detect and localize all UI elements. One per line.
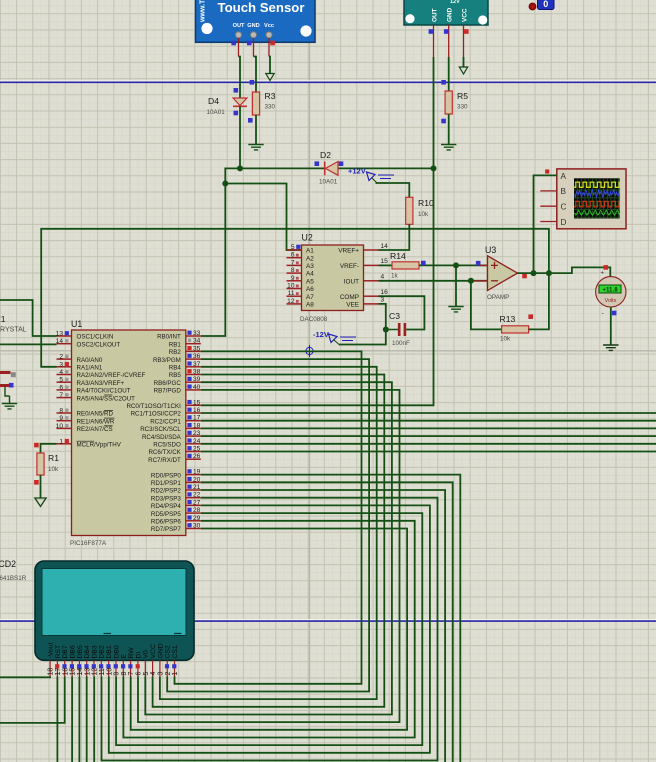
svg-text:10k: 10k — [48, 466, 59, 473]
wire RC1 pin16 to right edge — [201, 412, 656, 414]
svg-text:27: 27 — [193, 499, 201, 506]
svg-text:RD2/PSP2: RD2/PSP2 — [151, 488, 181, 495]
svg-text:2: 2 — [59, 354, 63, 361]
svg-text:RC4/SDI/SDA: RC4/SDI/SDA — [142, 434, 182, 441]
svg-text:DB4: DB4 — [84, 645, 91, 658]
svg-text:13: 13 — [84, 668, 91, 676]
wire voltmeter to ground — [610, 307, 612, 345]
svg-text:DB2: DB2 — [99, 645, 106, 658]
svg-text:RB6/PGC: RB6/PGC — [154, 380, 182, 387]
U1 pin 23 RC4/SDI/SDA — [142, 430, 201, 441]
U1 pin 36 RB3/PGM — [153, 353, 201, 364]
U1 pin 17 RC2/CCP1 — [150, 415, 201, 426]
svg-text:5: 5 — [291, 244, 295, 251]
svg-text:DB0: DB0 — [113, 645, 120, 658]
wire MCLR to R1 — [41, 444, 57, 453]
wire inverting node to R13 — [471, 281, 502, 330]
ground arrow below TS2 VCC — [459, 67, 467, 74]
svg-text:RE1/AN6/WR: RE1/AN6/WR — [77, 418, 115, 425]
wire DAC VREF- to R14 — [379, 264, 393, 266]
svg-text:A8: A8 — [306, 302, 314, 309]
svg-text:3: 3 — [381, 297, 385, 304]
svg-text:18: 18 — [48, 668, 55, 676]
svg-text:10k: 10k — [500, 336, 511, 343]
svg-text:VREF+: VREF+ — [338, 248, 359, 255]
U2 pin 14 VREF+ — [338, 243, 388, 255]
LCD pin 14 DB5 — [77, 645, 84, 676]
svg-text:1: 1 — [172, 672, 179, 676]
U1 pin 19 RD0/PSP0 — [151, 469, 201, 480]
svg-text:330: 330 — [265, 104, 276, 111]
junction node at sensor2 column — [431, 165, 437, 171]
svg-text:10A01: 10A01 — [207, 109, 226, 116]
U1 pin 4 — [57, 369, 146, 379]
resistor R14 — [392, 262, 419, 269]
svg-text:RB3/PGM: RB3/PGM — [153, 357, 181, 364]
wire RD0 pin19 toward LCD DB5 — [201, 475, 461, 762]
wire RB4 pin37 to LCD GND — [160, 367, 377, 699]
U1 pin 34 RB1 — [169, 338, 201, 349]
U2 pin 7 A3 — [287, 259, 315, 270]
diode D4 — [233, 98, 247, 106]
U2 pin 6 A2 — [287, 252, 315, 263]
svg-text:24: 24 — [193, 438, 201, 445]
svg-text:GND: GND — [447, 7, 454, 22]
wire RC5 pin24 to right edge — [201, 443, 656, 445]
svg-text:RA4/T0CKI/C1OUT: RA4/T0CKI/C1OUT — [77, 388, 131, 395]
wire RD3 pin22 to LCD DB2 — [102, 498, 438, 761]
svg-text:29: 29 — [193, 515, 201, 522]
U2 pin 4 IOUT — [344, 274, 385, 286]
LCD pin 18 -Vout — [48, 643, 55, 677]
wire RB5 pin38 to LCD VCC — [153, 375, 385, 707]
TS2 pin markers — [429, 29, 469, 34]
scope channel labels — [561, 172, 567, 227]
wire LCD pin16 DB7 to left edge — [0, 677, 65, 723]
wire +12V to R10 — [376, 183, 410, 197]
svg-text:A2: A2 — [306, 255, 314, 262]
U2 pin 12 A8 — [287, 298, 315, 309]
power terminal +12V — [348, 167, 394, 184]
svg-text:RC7/RX/DT: RC7/RX/DT — [148, 457, 181, 464]
svg-text:11: 11 — [288, 290, 295, 297]
svg-text:14: 14 — [77, 668, 84, 676]
markers near R1 — [34, 443, 39, 485]
diode D2 — [325, 162, 338, 176]
U2 pin 5 A1 — [287, 244, 315, 255]
svg-text:39: 39 — [193, 376, 201, 383]
svg-text:9: 9 — [114, 672, 121, 676]
U1 pin 1 — [57, 438, 122, 448]
U2 pin 15 VREF- — [340, 258, 388, 270]
ground below R3 — [248, 145, 263, 150]
svg-text:R14: R14 — [390, 251, 406, 261]
svg-text:3: 3 — [158, 672, 165, 676]
svg-text:GND: GND — [157, 643, 164, 658]
wire crystal bottom to OSC2 — [0, 343, 57, 345]
svg-text:A7: A7 — [306, 294, 314, 301]
wire RC3 pin18 to right edge — [201, 427, 656, 429]
TS1 Vcc pin stub — [268, 38, 270, 57]
U2 pin 16 COMP — [340, 289, 388, 301]
svg-text:23: 23 — [193, 430, 201, 437]
resistor R3 — [252, 92, 259, 115]
svg-text:A6: A6 — [306, 286, 314, 293]
markers near C1 — [9, 372, 16, 387]
wire R14 to opamp noninverting input — [419, 264, 488, 266]
svg-text:DI: DI — [135, 652, 142, 659]
svg-text:RD3/PSP3: RD3/PSP3 — [151, 495, 181, 502]
svg-text:RW: RW — [128, 647, 135, 659]
marker at scope A — [545, 169, 549, 173]
scope trace D green sine wave — [575, 210, 620, 215]
TS1 OUT pin stub — [238, 38, 240, 57]
svg-text:VREF-: VREF- — [340, 263, 359, 270]
svg-text:RC6/TX/CK: RC6/TX/CK — [148, 449, 181, 456]
svg-text:8: 8 — [121, 672, 128, 676]
svg-text:6: 6 — [291, 252, 295, 259]
wire branch to DAC A1 — [225, 184, 301, 251]
LCD pin 2 CS2 — [165, 645, 172, 676]
svg-text:RB7/PGD: RB7/PGD — [154, 388, 182, 395]
TS2 VCC pin stub — [463, 25, 465, 57]
U1 pin 21 RD2/PSP2 — [151, 484, 201, 495]
svg-text:X1: X1 — [0, 314, 6, 324]
wire RC2 pin17 to right edge — [201, 420, 656, 422]
wire node to RB0 branch — [225, 168, 240, 183]
svg-text:0: 0 — [543, 0, 548, 9]
ground arrow below TS1 Vcc — [266, 74, 274, 81]
svg-text:DAC0808: DAC0808 — [300, 316, 328, 323]
svg-text:RB2: RB2 — [169, 349, 182, 356]
U1 pin 20 RD1/PSP1 — [151, 476, 201, 487]
svg-text:35: 35 — [193, 345, 201, 352]
svg-text:E: E — [121, 654, 128, 659]
svg-text:A4: A4 — [306, 271, 314, 278]
svg-text:2: 2 — [165, 672, 172, 676]
svg-text:7: 7 — [128, 672, 135, 676]
svg-text:RB4: RB4 — [169, 365, 182, 372]
svg-text:8: 8 — [291, 267, 295, 274]
wire R1 to ground arrow — [40, 475, 42, 498]
U1 pin 29 RD6/PSP6 — [151, 515, 201, 526]
svg-text:D: D — [561, 218, 567, 227]
wire LCD pin15 DB6 down — [71, 677, 73, 762]
svg-text:Vcc: Vcc — [264, 23, 274, 29]
wire RB6 pin39 to LCD V0 — [145, 382, 392, 714]
svg-text:DB3: DB3 — [91, 645, 98, 658]
svg-text:DB7: DB7 — [62, 645, 69, 658]
svg-text:16: 16 — [193, 407, 201, 414]
svg-text:R3: R3 — [265, 91, 276, 101]
svg-text:U2: U2 — [302, 233, 313, 243]
svg-text:10: 10 — [106, 668, 113, 676]
wire branch down to U1 RB0 pin 33 — [201, 184, 226, 337]
U1 pin 37 RB4 — [169, 361, 201, 372]
svg-text:26: 26 — [193, 453, 201, 460]
ic U2 DAC0808 body — [302, 245, 364, 311]
svg-text:OSC1/CLKIN: OSC1/CLKIN — [77, 334, 114, 341]
svg-text:C: C — [561, 203, 567, 212]
svg-text:21: 21 — [193, 484, 201, 491]
wire DAC IOUT to opamp inverting input — [379, 280, 488, 282]
sheet gray vertical line — [309, 0, 311, 762]
svg-text:RE2/AN7/CS: RE2/AN7/CS — [77, 426, 113, 433]
svg-text:28: 28 — [193, 507, 201, 514]
LCD pin 17 RST — [55, 645, 62, 677]
svg-text:6: 6 — [59, 384, 63, 391]
U1 pin 7 — [57, 392, 136, 402]
svg-text:A3: A3 — [306, 263, 314, 270]
svg-text:19: 19 — [193, 469, 201, 476]
svg-text:330: 330 — [457, 104, 468, 111]
svg-text:VCC: VCC — [462, 8, 469, 22]
svg-text:38: 38 — [193, 369, 201, 376]
wire main node horizontal — [240, 167, 434, 169]
wire DAC COMP to C3 right — [379, 296, 425, 329]
LCD pin 3 GND — [157, 643, 164, 676]
U1 pin 18 RC3/SCK/SCL — [140, 422, 201, 433]
junction node at D4 — [237, 165, 243, 171]
resistor R13 — [502, 326, 529, 333]
ground arrow below R1 — [35, 498, 46, 507]
U1 pin 30 RD7/PSP7 — [151, 523, 201, 534]
svg-text:RD7/PSP7: RD7/PSP7 — [151, 526, 181, 533]
wire RD7 pin30 to LCD RW — [131, 529, 407, 730]
origin marker — [304, 345, 316, 357]
U2 pin 11 A7 — [287, 290, 315, 301]
marker at opamp output — [522, 274, 527, 279]
markers near R3 — [248, 80, 254, 123]
wire RC4 pin23 to right edge — [201, 435, 656, 437]
capacitor C1 at left edge — [0, 371, 11, 404]
wire RB2 pin35 to LCD CS1 — [175, 351, 362, 683]
scope trace B blue noise wave — [575, 189, 620, 197]
wire LCD pin12 DB3 down — [93, 677, 95, 762]
markers near D4 — [234, 88, 239, 115]
wire TS1 GND to resistor R3 — [254, 57, 257, 93]
wire TS2 GND to R5 — [448, 57, 450, 91]
wire opamp output line — [518, 267, 611, 277]
svg-text:Volts: Volts — [605, 298, 617, 304]
svg-text:9: 9 — [291, 275, 295, 282]
wire scope channel A to output node — [534, 175, 557, 273]
svg-text:MCLR/Vpp/THV: MCLR/Vpp/THV — [77, 442, 122, 449]
U1 pin 33 RB0/INT — [157, 330, 201, 341]
svg-text:VEE: VEE — [346, 302, 359, 309]
svg-text:12: 12 — [92, 668, 99, 676]
lcd screen cursor marks — [104, 633, 182, 635]
marker voltmeter plus — [604, 265, 609, 270]
svg-text:OUT: OUT — [432, 8, 439, 22]
svg-text:RA3/AN3/VREF+: RA3/AN3/VREF+ — [77, 380, 125, 387]
svg-text:Touch Sensor: Touch Sensor — [218, 0, 305, 15]
oscilloscope frame — [557, 169, 626, 229]
svg-text:R5: R5 — [457, 91, 468, 101]
sheet gray horizontal line — [0, 350, 656, 352]
svg-text:+12V: +12V — [348, 167, 366, 176]
svg-text:15: 15 — [70, 668, 77, 676]
svg-text:1k: 1k — [391, 273, 399, 280]
svg-text:RC1/T1OSI/CCP2: RC1/T1OSI/CCP2 — [131, 411, 182, 418]
svg-text:14: 14 — [381, 243, 389, 250]
svg-text:RD0/PSP0: RD0/PSP0 — [151, 472, 181, 479]
svg-text:RB1: RB1 — [169, 341, 182, 348]
svg-text:DB1: DB1 — [106, 645, 113, 658]
svg-text:V0: V0 — [143, 650, 150, 659]
resistor R1 — [37, 453, 44, 475]
svg-text:IOUT: IOUT — [344, 278, 359, 285]
wire RD2 pin21 toward LCD DB3 — [201, 490, 445, 762]
wire R10 to DAC VREF+ — [379, 224, 410, 250]
svg-text:C3: C3 — [389, 311, 400, 321]
svg-text:22: 22 — [193, 492, 201, 499]
scope pin D stub — [540, 221, 557, 223]
blue template line bottom — [0, 619, 656, 621]
scope pin C stub — [540, 205, 557, 207]
svg-text:16: 16 — [62, 668, 69, 676]
svg-text:RD4/PSP4: RD4/PSP4 — [151, 503, 181, 510]
U1 pin 40 RB7/PGD — [154, 384, 201, 395]
wire crystal top to OSC1 — [0, 300, 57, 336]
svg-text:COMP: COMP — [340, 294, 359, 301]
ground below C1 — [2, 404, 17, 409]
svg-text:OUT: OUT — [233, 23, 245, 29]
svg-text:A1: A1 — [306, 248, 314, 255]
svg-text:17: 17 — [55, 668, 62, 676]
TS2 GND pin stub — [448, 25, 450, 57]
LCD pin 16 DB7 — [62, 645, 69, 676]
svg-text:D2: D2 — [320, 150, 331, 160]
U1 pin 9 — [57, 415, 115, 425]
svg-text:40: 40 — [193, 384, 201, 391]
U1 pin 16 RC1/T1OSI/CCP2 — [131, 407, 201, 418]
LCD pin 1 CS1 — [172, 645, 179, 676]
wire RC6 pin25 to right edge — [201, 451, 656, 453]
voltmeter — [596, 271, 626, 318]
svg-text:R13: R13 — [500, 314, 516, 324]
svg-text:OSC2/CLKOUT: OSC2/CLKOUT — [77, 341, 121, 348]
marker voltmeter minus — [612, 311, 617, 316]
scope trace A yellow square wave — [574, 182, 624, 187]
resistor R10 — [406, 197, 413, 224]
svg-text:9: 9 — [59, 415, 63, 422]
TS2 OUT pin stub — [433, 25, 435, 57]
LCD pin 9 DB0 — [113, 645, 120, 676]
svg-text:16: 16 — [381, 289, 389, 296]
U2 pin 8 A4 — [287, 267, 315, 278]
U1 pin 39 RB6/PGC — [154, 376, 201, 387]
LCD pin 7 RW — [128, 647, 135, 677]
U1 pin 14 — [56, 338, 121, 348]
svg-text:15: 15 — [381, 258, 389, 265]
junction node RB0 branch — [222, 181, 228, 187]
oscilloscope screen — [574, 178, 620, 218]
U2 pin 9 A5 — [287, 275, 315, 286]
svg-text:10A01: 10A01 — [319, 179, 338, 186]
svg-text:12V: 12V — [450, 0, 460, 5]
junction C3 left node — [383, 327, 389, 333]
svg-text:DB5: DB5 — [77, 645, 84, 658]
TS1 GND pin stub — [253, 38, 255, 57]
svg-text:DB6: DB6 — [70, 645, 77, 658]
svg-text:R10: R10 — [418, 198, 434, 208]
svg-text:RE0/AN5/RD: RE0/AN5/RD — [77, 411, 114, 418]
LCD pin 11 DB2 — [99, 645, 106, 676]
wire LCD pin17 RST down — [56, 677, 58, 762]
wire R3 to ground — [255, 115, 257, 145]
svg-text:RD5/PSP5: RD5/PSP5 — [151, 511, 181, 518]
svg-text:-Vout: -Vout — [48, 643, 55, 659]
wire -12V to C3 node — [339, 330, 386, 345]
svg-text:RD1/PSP1: RD1/PSP1 — [151, 480, 181, 487]
junction scope A branch — [531, 270, 537, 276]
svg-text:RB0/INT: RB0/INT — [157, 334, 181, 341]
svg-text:33: 33 — [193, 330, 201, 337]
U1 pin 2 — [57, 354, 103, 364]
svg-text:5: 5 — [143, 672, 150, 676]
svg-text:RA5/AN4/SS/C2OUT: RA5/AN4/SS/C2OUT — [77, 395, 136, 402]
wire RB7 pin40 to LCD DI — [138, 390, 400, 722]
svg-text:-12V: -12V — [313, 330, 329, 339]
LCD pin 15 DB6 — [70, 645, 77, 676]
svg-text:RST: RST — [55, 645, 62, 659]
wire RD6 pin29 to LCD E — [123, 521, 414, 738]
svg-text:11: 11 — [99, 668, 106, 675]
U1 pin 8 — [57, 408, 114, 418]
U1 pin 26 RC7/RX/DT — [148, 453, 201, 464]
LCD pin 6 DI — [135, 652, 142, 677]
svg-text:GND: GND — [247, 23, 259, 29]
svg-text:36: 36 — [193, 353, 201, 360]
U1 pin 22 RD3/PSP3 — [151, 492, 201, 503]
U1 pin 15 RC0/T1OSO/T1CKI — [126, 399, 200, 410]
svg-text:CS1: CS1 — [172, 645, 179, 658]
svg-text:13: 13 — [56, 331, 64, 338]
svg-text:10: 10 — [56, 423, 64, 430]
svg-text:B: B — [561, 187, 567, 196]
capacitor C3 — [386, 323, 406, 336]
svg-text:+: + — [601, 271, 605, 277]
svg-text:RC5/SDO: RC5/SDO — [153, 442, 181, 449]
LCD pin 12 DB3 — [91, 645, 98, 676]
svg-text:A: A — [561, 172, 567, 181]
junction feedback branch — [546, 270, 552, 276]
svg-text:OPAMP: OPAMP — [487, 294, 509, 301]
svg-text:R1: R1 — [48, 453, 59, 463]
TS1 pin markers — [231, 41, 275, 46]
svg-text:8: 8 — [59, 408, 63, 415]
U2 pin 10 A6 — [287, 283, 315, 294]
wire LCD pin13 DB4 down — [86, 677, 88, 762]
wire RD4 pin27 to LCD DB1 — [109, 505, 430, 752]
markers near D2 — [315, 161, 344, 166]
touch sensor module TS1 — [196, 0, 316, 42]
svg-text:www.Tc: www.Tc — [200, 0, 207, 23]
svg-text:10: 10 — [287, 283, 295, 290]
svg-text:RC0/T1OSO/T1CKI: RC0/T1OSO/T1CKI — [126, 403, 181, 410]
U1 pin 6 — [57, 384, 131, 394]
svg-text:18: 18 — [193, 422, 201, 429]
wire R13 to output node — [529, 273, 549, 329]
wire D4 cathode down to node — [239, 106, 241, 168]
lcd display LCD2 body — [35, 561, 194, 660]
svg-text:CRYSTAL: CRYSTAL — [0, 327, 27, 334]
resistor R5 — [445, 91, 452, 114]
svg-text:U3: U3 — [485, 245, 496, 255]
wire TS1 OUT to diode D4 — [239, 57, 241, 98]
U1 pin 38 RB5 — [169, 369, 201, 380]
